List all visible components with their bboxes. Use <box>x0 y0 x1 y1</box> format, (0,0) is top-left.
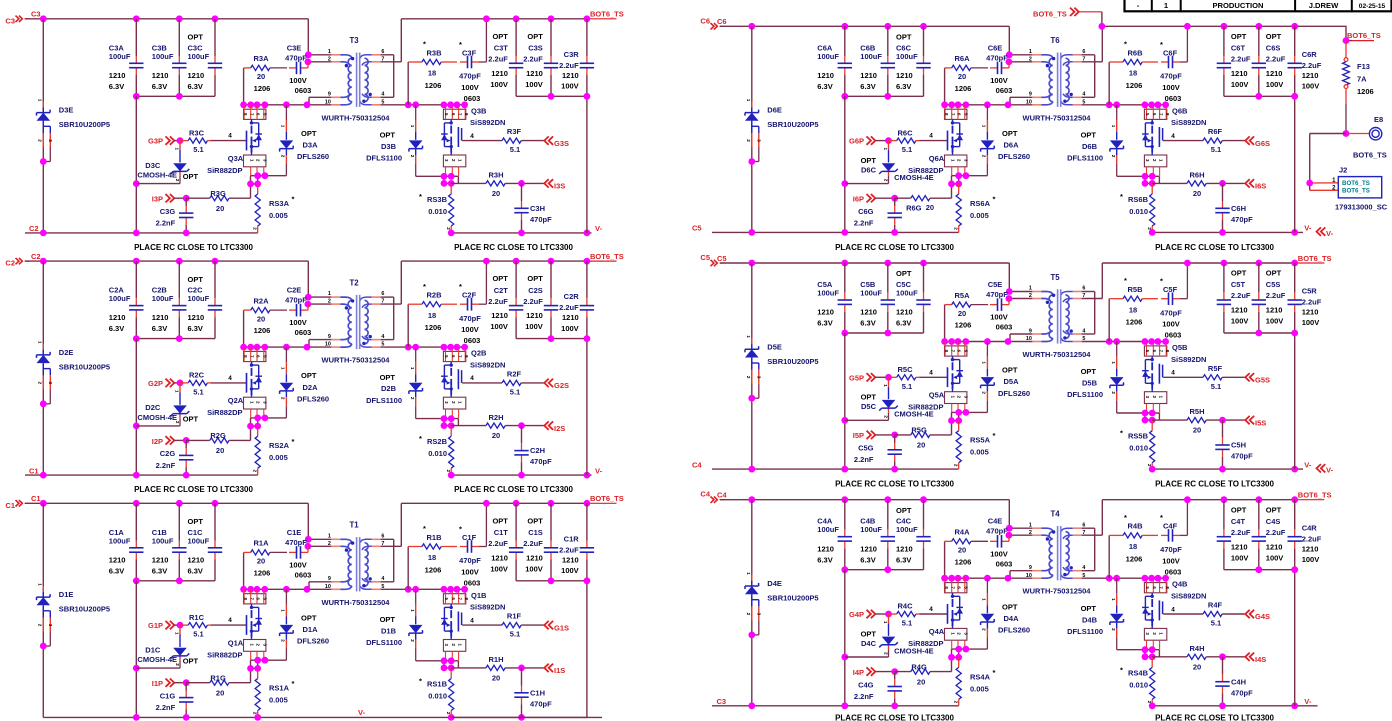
svg-text:-: - <box>1137 1 1140 10</box>
D5E labels <box>767 342 818 365</box>
svg-text:4: 4 <box>228 617 232 624</box>
resistor R2B 18 <box>408 302 457 348</box>
resistor R3H 20 <box>451 176 544 186</box>
capacitor C4E 470pF <box>990 535 1009 548</box>
RS1A labels <box>269 679 295 705</box>
svg-text:4: 4 <box>929 606 933 613</box>
wire T3 pin2 <box>308 61 332 63</box>
svg-text:0603: 0603 <box>295 328 312 337</box>
svg-text:I5P: I5P <box>853 431 864 440</box>
capacitor C6S 2.2uF <box>1252 26 1266 96</box>
wire output cap bank to V- rail <box>1294 333 1296 469</box>
diode D1B DFLS1100 <box>409 589 423 661</box>
svg-text:BOT6_TS: BOT6_TS <box>1353 151 1387 160</box>
svg-text:18: 18 <box>428 553 436 562</box>
capacitor C5C 100uF <box>916 263 930 333</box>
wire left vertical (cell+ to cell-) <box>751 263 753 469</box>
svg-text:OPT: OPT <box>896 506 912 515</box>
svg-text:OPT: OPT <box>492 274 508 283</box>
junction dots top-right rail <box>1184 23 1298 30</box>
R3H labels <box>488 171 503 199</box>
off-page connector G3S <box>544 136 569 147</box>
junction dots bottom-left rail <box>40 472 190 479</box>
wire left vertical (cell+ to cell-) <box>42 19 44 233</box>
R1F labels <box>507 612 522 639</box>
svg-text:470pF: 470pF <box>986 53 1008 62</box>
off-page connector BOT6_TS (top feed) <box>1033 8 1102 19</box>
off-page connector I2S <box>544 421 565 433</box>
svg-text:3: 3 <box>757 139 762 142</box>
D1B labels <box>366 615 402 647</box>
svg-text:6.3V: 6.3V <box>152 82 167 91</box>
svg-text:PLACE RC CLOSE TO LTC3300: PLACE RC CLOSE TO LTC3300 <box>835 243 954 252</box>
resistor R6H 20 <box>1152 176 1245 186</box>
capacitor C4G 2.2nF <box>888 672 902 706</box>
wire left vertical (cell+ to cell-) <box>751 26 753 232</box>
svg-text:BOT6_TS: BOT6_TS <box>1347 31 1381 40</box>
svg-text:2.2uF: 2.2uF <box>1231 528 1251 537</box>
svg-text:7A: 7A <box>1357 75 1367 84</box>
svg-text:G6P: G6P <box>849 137 864 146</box>
svg-text:4: 4 <box>470 375 474 382</box>
svg-text:470pF: 470pF <box>530 700 552 709</box>
svg-text:4: 4 <box>228 133 232 140</box>
svg-text:100uF: 100uF <box>109 536 131 545</box>
svg-text:SBR10U200P5: SBR10U200P5 <box>59 362 110 371</box>
svg-text:2.2uF: 2.2uF <box>559 546 579 555</box>
wire switch-node rail (secondary) <box>381 104 466 106</box>
junction dot D1E anode <box>40 643 47 650</box>
svg-text:20: 20 <box>492 189 500 198</box>
T1 labels <box>322 521 391 607</box>
svg-text:I2S: I2S <box>554 424 565 433</box>
R4G labels <box>911 662 927 686</box>
wire source cluster link <box>251 176 258 184</box>
wire switch-node rail (secondary) <box>1082 577 1167 579</box>
svg-text:1: 1 <box>1111 598 1116 601</box>
capacitor C3T 2.2uF <box>509 19 523 97</box>
capacitor C1B 100uF <box>172 503 186 581</box>
diode D3A DFLS260 <box>280 105 294 176</box>
svg-text:2.2uF: 2.2uF <box>1302 298 1322 307</box>
svg-text:0603: 0603 <box>464 579 481 588</box>
svg-text:1: 1 <box>746 99 751 102</box>
svg-text:C3E: C3E <box>287 43 302 52</box>
svg-text:T1: T1 <box>349 521 359 530</box>
svg-text:1: 1 <box>328 291 331 297</box>
junction dot output cap bank bottom <box>548 93 555 100</box>
svg-text:2: 2 <box>982 155 987 158</box>
svg-text:PLACE RC CLOSE TO LTC3300: PLACE RC CLOSE TO LTC3300 <box>1155 480 1274 489</box>
wire R2G rise to source node <box>250 426 252 440</box>
svg-text:6.3V: 6.3V <box>188 82 203 91</box>
svg-text:2.2uF: 2.2uF <box>559 303 579 312</box>
capacitor C2T 2.2uF <box>509 261 523 339</box>
wire T3 pin7 to top rail <box>381 19 402 62</box>
svg-text:C5: C5 <box>717 254 727 263</box>
wire right source cluster link <box>1145 413 1152 420</box>
svg-text:02-25-15: 02-25-15 <box>1359 3 1386 10</box>
svg-text:2: 2 <box>328 56 331 62</box>
svg-text:5.1: 5.1 <box>1211 619 1221 628</box>
svg-text:R6B: R6B <box>1127 48 1143 57</box>
svg-text:1: 1 <box>1164 1 1169 10</box>
junction dot I3P node <box>183 195 190 202</box>
svg-text:1206: 1206 <box>425 323 442 332</box>
capacitor C6E 470pF <box>990 62 1009 75</box>
wire D4B to source cluster <box>1117 649 1160 651</box>
junction dots bottom-left rail <box>748 229 898 236</box>
C5E labels <box>986 280 1012 332</box>
svg-text:20: 20 <box>492 674 500 683</box>
svg-text:*: * <box>292 195 295 204</box>
svg-text:20: 20 <box>917 677 925 686</box>
svg-text:2: 2 <box>1111 155 1116 158</box>
svg-text:100V: 100V <box>1266 317 1284 326</box>
resistor R1C 5.1 <box>180 623 211 628</box>
wire T4 pin9 drop <box>1010 571 1032 579</box>
resistor R1A 20 <box>244 550 287 589</box>
svg-text:1: 1 <box>410 367 415 370</box>
svg-text:2.2uF: 2.2uF <box>1302 534 1322 543</box>
svg-text:PLACE RC CLOSE TO LTC3300: PLACE RC CLOSE TO LTC3300 <box>134 243 253 252</box>
junction dot G6P node <box>885 137 892 144</box>
diode D5E SBR10U200P5 <box>745 338 759 398</box>
D6E pin numbers <box>746 99 761 143</box>
svg-text:C4T: C4T <box>1231 517 1246 526</box>
off-page connector I5P <box>853 431 895 441</box>
svg-text:100V: 100V <box>561 324 579 333</box>
svg-text:I1S: I1S <box>554 666 565 675</box>
wire top rail drop to T5 pin 1 <box>1008 263 1010 292</box>
capacitor C6T 2.2uF <box>1217 26 1231 96</box>
svg-text:4: 4 <box>1171 606 1175 613</box>
junction dots secondary rail <box>405 586 468 593</box>
svg-text:2.2nF: 2.2nF <box>156 703 176 712</box>
R1C labels <box>189 613 205 639</box>
off-page connector I6P <box>853 194 895 204</box>
junction dot I2P node <box>183 437 190 444</box>
wire bottom-left rail C3 <box>712 705 959 707</box>
svg-text:SiR882DP: SiR882DP <box>207 166 242 175</box>
svg-text:*: * <box>1120 192 1123 201</box>
svg-text:SiS892DN: SiS892DN <box>470 118 505 127</box>
wire bottom-right rail V- <box>1152 705 1317 707</box>
junction dots source cluster <box>948 409 969 424</box>
C4E labels <box>986 517 1012 569</box>
svg-text:C6G: C6G <box>858 207 874 216</box>
svg-text:6.3V: 6.3V <box>860 82 875 91</box>
svg-text:100V: 100V <box>1302 82 1320 91</box>
junction dots secondary rail <box>405 344 468 351</box>
svg-text:SiR882DP: SiR882DP <box>908 639 943 648</box>
wire output cap bank bottom <box>1224 332 1295 334</box>
svg-text:BOT6_TS: BOT6_TS <box>1342 180 1370 187</box>
D5E pin numbers <box>746 335 761 379</box>
resistor R5F 5.1 <box>1163 375 1245 380</box>
svg-text:2: 2 <box>252 712 257 715</box>
svg-text:2.2uF: 2.2uF <box>1266 528 1286 537</box>
wire D6A to source cluster <box>952 175 988 177</box>
svg-text:1: 1 <box>950 159 955 162</box>
wire output cap bank to V- rail <box>586 581 588 718</box>
svg-text:470pF: 470pF <box>285 53 307 62</box>
svg-text:9: 9 <box>1029 565 1032 571</box>
svg-text:1: 1 <box>1029 286 1032 292</box>
C2G labels <box>156 449 176 470</box>
junction dot output cap bank bottom <box>1255 330 1262 337</box>
mosfet Q4B SiS892DN <box>1142 578 1170 649</box>
wire R6G rise to source node <box>951 184 953 198</box>
svg-text:G2P: G2P <box>148 379 163 388</box>
svg-text:2.2uF: 2.2uF <box>523 55 543 64</box>
svg-text:6.3V: 6.3V <box>817 82 832 91</box>
svg-text:3: 3 <box>757 376 762 379</box>
mosfet Q2A SiR882DP <box>243 347 268 418</box>
svg-text:C1G: C1G <box>160 692 176 701</box>
svg-text:*: * <box>993 668 996 677</box>
svg-text:RS3B: RS3B <box>427 195 448 204</box>
svg-text:SiS892DN: SiS892DN <box>1171 355 1206 364</box>
svg-text:RS1A: RS1A <box>269 684 290 693</box>
C3F labels <box>459 40 481 103</box>
C4C labels <box>896 506 918 565</box>
capacitor C6F 470pF <box>1161 26 1187 68</box>
junction dot T1 pin2 <box>305 543 312 550</box>
svg-text:V-: V- <box>595 466 603 475</box>
diode D3E SBR10U200P5 <box>37 102 51 162</box>
Q5B labels <box>1171 343 1206 364</box>
svg-text:470pF: 470pF <box>986 290 1008 299</box>
svg-text:CMOSH-4E: CMOSH-4E <box>137 171 177 180</box>
svg-text:SiS892DN: SiS892DN <box>1171 118 1206 127</box>
junction dot D3C branch <box>133 180 140 187</box>
junction dot D5E anode <box>748 395 755 402</box>
wire bottom-left rail C2 <box>25 232 258 234</box>
wire T6 pin9 drop <box>1010 97 1032 105</box>
svg-text:C2T: C2T <box>494 286 509 295</box>
svg-text:100V: 100V <box>289 76 307 85</box>
C6H labels <box>1231 204 1253 224</box>
svg-text:1206: 1206 <box>1126 318 1143 327</box>
junction dots cap bank bottom <box>133 577 183 584</box>
svg-text:WURTH-750312504: WURTH-750312504 <box>322 598 391 607</box>
svg-text:1210: 1210 <box>188 71 205 80</box>
svg-text:1: 1 <box>1158 396 1163 399</box>
R2H labels <box>488 413 503 440</box>
wire G6P to zener <box>888 141 890 144</box>
svg-text:OPT: OPT <box>527 517 543 526</box>
R3F labels <box>507 127 522 154</box>
svg-text:2.2uF: 2.2uF <box>523 297 543 306</box>
sense resistor RS3B 0.010 <box>446 183 454 233</box>
svg-text:2: 2 <box>451 401 456 404</box>
svg-text:SBR10U200P5: SBR10U200P5 <box>767 357 818 366</box>
svg-text:6.3V: 6.3V <box>896 82 911 91</box>
capacitor C1F 470pF <box>460 503 486 553</box>
wire switch-node rail (secondary) <box>381 588 466 590</box>
wire switch-node rail (secondary) <box>1082 104 1167 106</box>
Q6A labels <box>908 154 945 175</box>
D1C labels <box>137 646 198 666</box>
svg-text:2: 2 <box>982 391 987 394</box>
wire output cap bank bottom <box>516 338 587 340</box>
svg-text:1210: 1210 <box>896 544 913 553</box>
off-page connector I6S <box>1245 179 1266 190</box>
svg-text:*: * <box>1124 276 1127 285</box>
wire T3 pin1 <box>308 54 331 56</box>
svg-text:6.3V: 6.3V <box>896 319 911 328</box>
wire T2 pin1 <box>308 296 331 298</box>
svg-text:D2A: D2A <box>303 383 319 392</box>
svg-text:I4S: I4S <box>1255 655 1266 664</box>
svg-text:DFLS1100: DFLS1100 <box>1067 154 1103 163</box>
svg-text:20: 20 <box>216 204 224 213</box>
junction dots source cluster <box>247 172 268 187</box>
wire bottom-left rail C5 <box>712 231 959 233</box>
svg-text:5.1: 5.1 <box>902 619 912 628</box>
junction dot D6C branch <box>841 180 848 187</box>
C2T labels <box>488 274 508 331</box>
svg-text:0.005: 0.005 <box>269 211 288 220</box>
svg-text:D1A: D1A <box>303 625 319 634</box>
C5R labels <box>1302 287 1322 328</box>
svg-text:2.2nF: 2.2nF <box>854 219 874 228</box>
svg-text:1206: 1206 <box>254 326 271 335</box>
wire top-right rail BOT6_TS <box>401 18 616 20</box>
svg-text:1210: 1210 <box>562 556 579 565</box>
svg-text:2: 2 <box>884 652 889 655</box>
svg-text:C5H: C5H <box>1231 441 1246 450</box>
T6 pin numbers <box>1026 49 1086 105</box>
svg-text:DFLS1100: DFLS1100 <box>366 154 402 163</box>
J2 pin numbers <box>1332 178 1336 192</box>
svg-text:20: 20 <box>216 689 224 698</box>
C2E labels <box>285 286 311 338</box>
svg-text:R5B: R5B <box>1127 285 1143 294</box>
svg-text:100V: 100V <box>1231 553 1249 562</box>
svg-text:R5A: R5A <box>954 291 970 300</box>
wire E8 node to J2 <box>1310 134 1346 191</box>
svg-text:1: 1 <box>281 125 286 128</box>
svg-text:9: 9 <box>328 576 331 582</box>
wire bottom-left rail C1 <box>25 474 258 476</box>
svg-text:100uF: 100uF <box>817 525 839 534</box>
svg-text:1206: 1206 <box>955 84 972 93</box>
svg-text:D6C: D6C <box>861 166 877 175</box>
svg-text:*: * <box>292 437 295 446</box>
svg-text:100V: 100V <box>490 80 508 89</box>
C1B labels <box>152 528 174 576</box>
svg-text:DFLS260: DFLS260 <box>297 394 329 403</box>
svg-text:2: 2 <box>281 155 286 158</box>
junction dots source cluster <box>948 172 969 187</box>
svg-text:100uF: 100uF <box>152 294 174 303</box>
wire right source cluster link <box>444 419 451 426</box>
F13 labels <box>1357 62 1374 96</box>
svg-text:1210: 1210 <box>860 544 877 553</box>
capacitor C2E 470pF <box>289 304 308 317</box>
C6F labels <box>1160 40 1182 103</box>
svg-text:1: 1 <box>746 572 751 575</box>
svg-text:1: 1 <box>38 583 43 586</box>
resistor R4A 20 <box>945 539 988 579</box>
svg-text:CMOSH-4E: CMOSH-4E <box>137 655 177 664</box>
wire D2A to source cluster <box>251 417 287 419</box>
svg-text:DFLS1100: DFLS1100 <box>366 638 402 647</box>
svg-text:6.3V: 6.3V <box>109 567 124 576</box>
wire top rail drop to T3 pin 1 <box>307 19 309 55</box>
RS4A labels <box>970 668 996 694</box>
junction dots primary rail <box>941 101 1011 108</box>
svg-text:R3C: R3C <box>189 128 205 137</box>
off-page connector G4S <box>1245 610 1270 621</box>
capacitor C2G 2.2nF <box>179 440 193 475</box>
R2F labels <box>507 369 522 396</box>
svg-text:C2R: C2R <box>564 292 580 301</box>
wire R1C to gate <box>211 624 247 626</box>
R5F labels <box>1208 364 1223 391</box>
junction dots bottom-right rail <box>448 230 590 237</box>
svg-text:V-: V- <box>1326 229 1334 238</box>
svg-text:*: * <box>1124 40 1127 49</box>
svg-text:18: 18 <box>428 311 436 320</box>
svg-text:9: 9 <box>328 92 331 98</box>
svg-text:4: 4 <box>1171 370 1175 377</box>
svg-text:C2: C2 <box>31 252 41 261</box>
junction dot T5 pin1 <box>1006 288 1013 295</box>
R4C labels <box>897 602 913 628</box>
diode D2B DFLS1100 <box>409 347 423 419</box>
RS5B labels <box>1120 429 1149 453</box>
capacitor C2A 100uF <box>129 261 143 339</box>
svg-text:V-: V- <box>358 708 366 717</box>
svg-text:C3G: C3G <box>160 207 176 216</box>
svg-text:6.3V: 6.3V <box>860 555 875 564</box>
off-page connector I5S <box>1245 416 1266 427</box>
svg-text:DFLS260: DFLS260 <box>998 626 1030 635</box>
svg-text:100V: 100V <box>461 325 479 334</box>
svg-text:3: 3 <box>964 632 969 635</box>
zener D1C CMOSH-4E <box>171 628 190 668</box>
svg-text:470pF: 470pF <box>1160 72 1182 81</box>
wire output cap bank to V- rail <box>1294 570 1296 706</box>
mosfet Q6B SiS892DN <box>1142 105 1170 176</box>
junction dots on top rail <box>40 258 219 265</box>
RS2A labels <box>269 437 295 462</box>
transformer T1 WURTH-750312504 <box>331 537 380 591</box>
svg-text:2: 2 <box>1029 56 1032 62</box>
wire top rail C6 <box>720 25 1009 27</box>
wire output cap bank to V- rail <box>1294 96 1296 232</box>
svg-text:PLACE RC CLOSE TO LTC3300: PLACE RC CLOSE TO LTC3300 <box>1155 243 1274 252</box>
T1 pin numbers <box>325 534 385 590</box>
C2S labels <box>523 274 543 331</box>
svg-text:2: 2 <box>38 382 43 385</box>
svg-text:0.010: 0.010 <box>428 449 447 458</box>
svg-text:6.3V: 6.3V <box>109 324 124 333</box>
off-page connector I3S <box>544 179 565 190</box>
capacitor C4F 470pF <box>1161 500 1187 542</box>
svg-text:OPT: OPT <box>1266 505 1282 514</box>
svg-text:BOT6_TS: BOT6_TS <box>1298 254 1332 263</box>
wire D3C anode <box>136 183 180 185</box>
C2F labels <box>459 282 481 345</box>
svg-text:R3H: R3H <box>488 171 503 180</box>
svg-text:C6: C6 <box>717 17 727 26</box>
Q2A labels <box>207 396 244 417</box>
svg-text:C4: C4 <box>717 491 727 500</box>
